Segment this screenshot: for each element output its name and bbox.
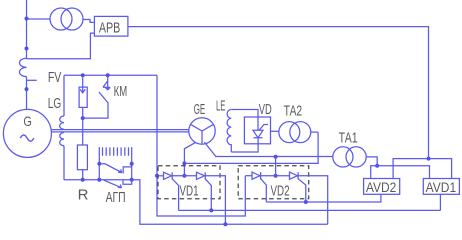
breaker AGP right leg xyxy=(131,147,133,180)
resistor R xyxy=(77,145,87,170)
exciter GE circle xyxy=(189,118,215,144)
rectifier VD1 dashed box xyxy=(158,166,220,199)
svg-text:G: G xyxy=(23,113,32,129)
node: VD1 anode bus tap xyxy=(155,174,159,178)
wire: VD2 feed vertical xyxy=(275,157,277,176)
field winding LG (vertical with 4 left humps crossing stator bus) xyxy=(63,75,65,116)
exciter field winding LE (4 left humps) xyxy=(227,110,231,153)
svg-text:AVD1: AVD1 xyxy=(426,179,457,195)
svg-text:VD: VD xyxy=(259,101,272,118)
rectifier VD2 dashed box xyxy=(238,166,309,199)
node: tap to transformer xyxy=(25,17,29,21)
svg-text:FV: FV xyxy=(48,69,62,86)
generator G circle xyxy=(3,109,51,157)
svg-text:ТА1: ТА1 xyxy=(339,129,358,146)
svg-text:VD2: VD2 xyxy=(271,183,290,200)
node: AGP top contact right xyxy=(130,162,134,166)
arrester FV (rect with down arrow) xyxy=(82,75,84,93)
wire: LE top to VD box xyxy=(231,110,258,131)
wire: VD box right to TA2 xyxy=(271,130,279,132)
AGP top contact blade xyxy=(99,164,122,173)
wire: APB right output to far right and down xyxy=(128,27,429,159)
VD1 anode bus xyxy=(157,175,164,177)
svg-text:LG: LG xyxy=(48,95,62,112)
svg-text:АРВ: АРВ xyxy=(99,20,121,37)
AGP top contact seat xyxy=(123,167,132,174)
generator tilde xyxy=(20,135,34,141)
AGP bottom contact seat xyxy=(123,180,132,184)
reactor L (two left-bulging humps with tap tick) xyxy=(19,58,26,76)
node: KM/FV bottom junction xyxy=(81,116,85,120)
node: VD1 output on line C xyxy=(223,222,227,226)
wire: VD1 cathode output down to line C xyxy=(205,176,226,224)
svg-text:КМ: КМ xyxy=(114,83,128,100)
svg-text:АГП: АГП xyxy=(106,189,126,206)
wire: transformer to APB box xyxy=(83,20,94,23)
thyristor VS2 of VD1 xyxy=(197,172,206,179)
node: KM tap xyxy=(106,73,110,77)
controller AVD2 box xyxy=(364,179,400,195)
node: VD2 feed tap xyxy=(274,155,278,159)
node: APB line joins xyxy=(427,157,431,161)
transformer T (two overlapping circles) xyxy=(50,8,72,30)
transformer TA2 (two overlapping circles) xyxy=(279,122,300,143)
wire: GE bottom-right branch (line1) to TA1 xyxy=(204,142,333,156)
wire: bottom-left bus to AGP and down xyxy=(64,180,328,224)
svg-text:ТА2: ТА2 xyxy=(284,103,303,120)
control bus line A (VD1 gates to AVD1) xyxy=(179,209,441,211)
regulator APB box xyxy=(94,16,128,36)
wire: APB lower-left to left bus xyxy=(27,33,95,59)
node: reactor lower dot xyxy=(25,87,29,91)
svg-text:VD1: VD1 xyxy=(180,183,199,200)
thyristor VD box xyxy=(244,117,270,144)
wire: line2 from GE node to TA2 xyxy=(184,132,318,163)
svg-text:LE: LE xyxy=(216,97,226,114)
wire: left vertical bus from top edge to generator xyxy=(26,0,28,58)
wire: AVD2 right stub / AVD1 right stub line xyxy=(393,159,452,179)
wire: from left bus to transformer xyxy=(27,18,51,20)
node: dot on left bus xyxy=(25,47,29,51)
svg-text:AVD2: AVD2 xyxy=(366,179,397,195)
wire: KM enclosure top bus xyxy=(64,74,157,76)
wire: KM box right leg down to VD1 and line B xyxy=(157,75,245,216)
wire: AVD1 bottom stub to control bus line A xyxy=(439,194,441,210)
wire: R resistor branch xyxy=(82,118,84,145)
gate of VS1 to control bus xyxy=(172,179,178,211)
controller AVD1 box xyxy=(423,179,459,195)
node: R bottom xyxy=(81,178,85,182)
node: TA1/AVD junction xyxy=(375,164,379,168)
node: VD1 anode feed xyxy=(182,174,186,178)
wire: GE bottom-left branch down to VD1 xyxy=(184,142,195,176)
node: AGP top contact left xyxy=(97,162,101,166)
gate of VS3 to control bus xyxy=(261,179,267,202)
transformer TA1 (two overlapping circles) xyxy=(333,147,353,167)
node: VS2 gate junction xyxy=(209,208,213,212)
node: GE left branch / line2 xyxy=(182,161,186,165)
GE internal Y spokes xyxy=(191,124,214,144)
node: VD2 anode bus feed xyxy=(274,174,278,178)
thyristor VS3 of VD2 xyxy=(252,172,261,179)
node: VS4 gate junction xyxy=(304,200,308,204)
node: AGP bottom contact left xyxy=(97,178,101,182)
wire: LE bottom to VD box xyxy=(231,138,258,152)
breaker AGP left leg xyxy=(98,147,100,180)
node: AGP bottom contact right xyxy=(130,178,134,182)
node: FV tap xyxy=(81,73,85,77)
wire: TA1 right to AVD boxes xyxy=(366,157,377,166)
contactor KM (contact with chevron) xyxy=(107,75,109,90)
wire: VD2 cathode output to line C xyxy=(298,176,328,225)
gate of VS4 to control bus xyxy=(298,179,306,202)
gate of VS2 to control bus xyxy=(205,179,211,211)
VD2 anode bus xyxy=(245,175,252,177)
svg-text:GE: GE xyxy=(194,101,206,118)
AGP bottom contact blade xyxy=(104,180,122,188)
thyristor VD symbol (down-pointing with gate) xyxy=(253,125,268,138)
thyristor VS1 of VD1 xyxy=(164,172,173,179)
arc chute comb of AGP xyxy=(103,147,129,155)
svg-text:R: R xyxy=(78,187,89,204)
wire: stator double bus to exciter GE xyxy=(51,129,189,131)
wire: TA2 right down to line2 xyxy=(311,131,318,133)
control bus of VD2 gates to AVD2 xyxy=(266,194,381,202)
thyristor VS4 of VD2 xyxy=(290,172,299,179)
wire: AVD2 left stub / AVD1 left stub line xyxy=(371,166,430,179)
